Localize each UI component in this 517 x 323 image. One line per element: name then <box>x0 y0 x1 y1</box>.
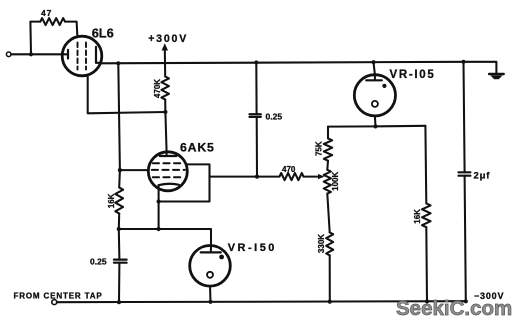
resistor 330K <box>326 232 333 255</box>
svg-text:16K: 16K <box>413 209 422 224</box>
VR-150 top lead <box>210 246 212 253</box>
resistor 16K left <box>115 188 123 214</box>
svg-text:SeekiC.com: SeekiC.com <box>396 297 512 320</box>
VR-105 plate <box>366 79 382 81</box>
wire 330K to bottom bus <box>329 255 331 301</box>
node cathode lead joins <box>157 227 161 231</box>
wire 75K to 100K <box>326 161 329 170</box>
node bus/right rail <box>461 60 465 64</box>
6AK5 plate <box>160 155 177 157</box>
resistor 100K <box>324 170 331 194</box>
tube VR-150 envelope <box>190 245 231 286</box>
wire main top bus <box>102 62 497 73</box>
node input junction <box>29 52 33 56</box>
VR-150 bottom lead <box>209 286 212 302</box>
node 470K bottom <box>163 110 167 114</box>
svg-text:0.25: 0.25 <box>90 257 107 267</box>
wire left rail <box>118 63 120 187</box>
svg-text:75K: 75K <box>315 141 324 156</box>
wire 16K to bottom bus <box>425 227 428 301</box>
tube 6L6 envelope <box>62 36 102 76</box>
resistor 470K <box>161 77 169 100</box>
VR-105 dot electrode <box>382 84 386 88</box>
node bottom/VR-150 <box>208 300 212 304</box>
input terminal <box>6 52 11 57</box>
node bus/left rail <box>116 61 120 65</box>
resistor 47 <box>40 18 65 25</box>
tube VR-105 envelope <box>354 75 395 116</box>
svg-text:2μf: 2μf <box>474 171 491 182</box>
+300V arrow <box>164 49 166 77</box>
node cathode bus left <box>117 227 121 231</box>
6L6 cathode <box>67 50 69 59</box>
wire 6AK5 screen loop <box>159 164 210 201</box>
wire junction up to resistor <box>30 22 40 55</box>
wire 0.25 upper line <box>255 63 257 115</box>
node bus/VR-105 <box>371 60 375 64</box>
node bottom/right rail <box>464 299 468 303</box>
resistor 470 <box>280 173 304 180</box>
svg-text:6AK5: 6AK5 <box>180 140 215 154</box>
VR-150 cathode circle <box>207 272 213 278</box>
wire right rail lower <box>465 176 466 302</box>
capacitor 0.25 lower <box>118 229 121 260</box>
svg-text:330K: 330K <box>317 234 326 253</box>
wire VR-105 node horizontals <box>328 125 425 128</box>
svg-text:470: 470 <box>282 165 296 174</box>
wire screen tap to 470 <box>210 176 280 178</box>
VR-105 cathode circle <box>372 101 378 107</box>
wire bottom bus <box>57 301 466 302</box>
svg-text:VR-I50: VR-I50 <box>228 242 277 254</box>
svg-text:100K: 100K <box>331 172 340 191</box>
wire right branch down to 16K <box>424 126 427 204</box>
node VR-105 bottom <box>373 124 377 128</box>
wire 6L6 bottom lead <box>88 76 166 114</box>
node bus/0.25 <box>254 60 258 64</box>
wire 470 to wiper arrow <box>304 176 319 178</box>
tube 6AK5 envelope <box>148 152 187 191</box>
wire resistor to 6L6 top cap <box>65 22 77 37</box>
node bottom/330K <box>328 300 332 304</box>
node grid tap <box>118 168 122 172</box>
capacitor 2uf <box>459 171 471 173</box>
svg-text:470K: 470K <box>153 79 162 98</box>
6AK5 grids (dashed) <box>152 163 185 177</box>
svg-text:0.25: 0.25 <box>266 112 283 122</box>
wire cathode bus <box>119 229 211 246</box>
wire right rail upper <box>464 62 465 173</box>
node 0.25 bottom <box>255 175 259 179</box>
wire grid tap to 6AK5 <box>120 169 149 171</box>
svg-text:47: 47 <box>41 8 52 18</box>
VR-105 top lead <box>374 62 375 80</box>
ground <box>489 73 503 76</box>
svg-text:16K: 16K <box>107 193 116 208</box>
resistor 16K right <box>422 203 431 227</box>
svg-text:VR-I05: VR-I05 <box>390 69 436 81</box>
wire input to 6L6 cathode <box>11 53 67 55</box>
wire 470K to 6AK5 plate <box>165 100 166 153</box>
node screen/cathode <box>157 199 161 203</box>
VR-105 bottom lead <box>374 116 377 127</box>
wire 100K to 330K <box>327 194 329 233</box>
bottom terminal <box>52 300 57 305</box>
wire 6L6 plate to main bus <box>96 62 102 64</box>
resistor 75K <box>324 138 332 160</box>
capacitor 0.25 upper <box>250 113 261 115</box>
node bottom/16K <box>425 299 429 303</box>
6AK5 cathode <box>159 184 180 185</box>
VR-150 plate <box>201 251 221 253</box>
wire 6AK5 cathode lead <box>158 187 160 230</box>
node bottom/left rail <box>117 300 121 304</box>
wire 16K to cathode node <box>118 214 120 230</box>
6L6 plate <box>95 47 97 63</box>
wire left down to 75K <box>327 127 329 139</box>
svg-text:+300V: +300V <box>148 33 188 45</box>
VR-150 dot electrode <box>219 255 224 260</box>
svg-text:6L6: 6L6 <box>92 25 114 40</box>
svg-text:FROM CENTER TAP: FROM CENTER TAP <box>14 291 103 300</box>
6L6 grids (dashed) <box>78 43 87 70</box>
